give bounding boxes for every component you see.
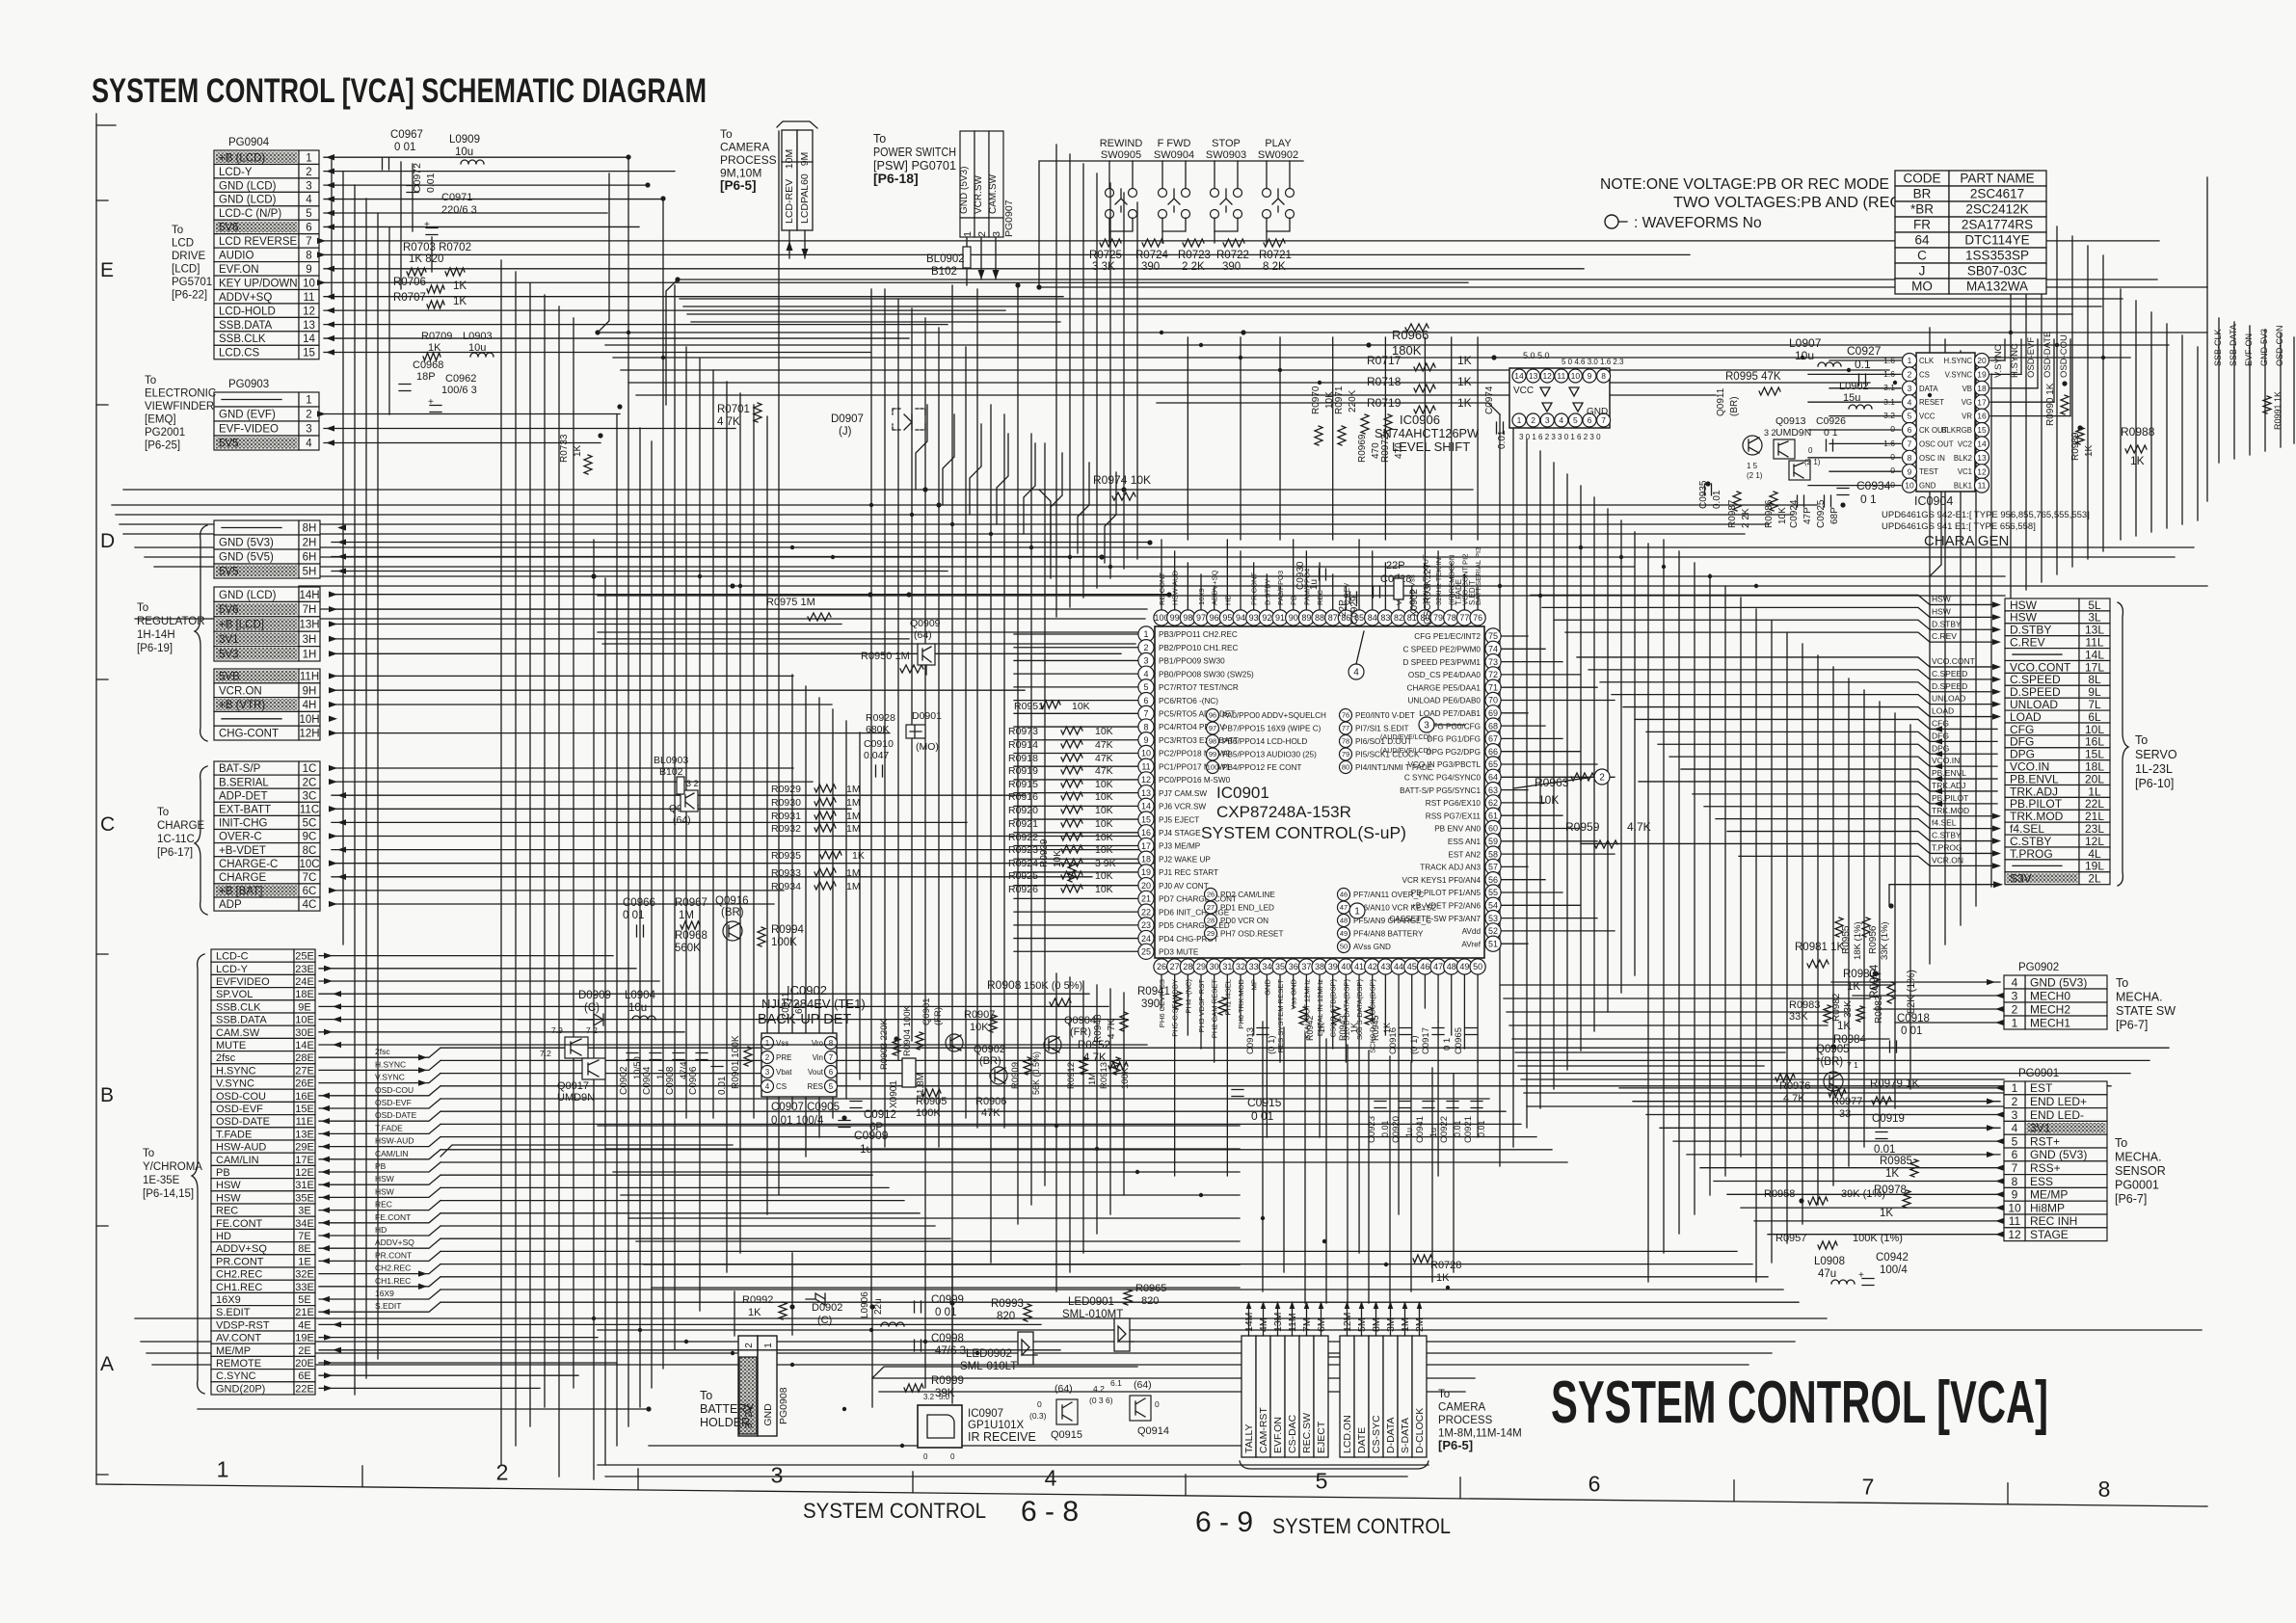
wire <box>1995 1111 2004 1117</box>
wire <box>1437 975 1439 1022</box>
pin 18 IC0901 <box>1138 851 1154 866</box>
wire <box>1014 673 1138 675</box>
svg-text:12: 12 <box>1542 371 1552 381</box>
svg-text:H.SYNC: H.SYNC <box>1944 357 1973 365</box>
wire <box>628 382 1870 384</box>
svg-text:21L: 21L <box>2085 810 2104 823</box>
svg-text:[P6-19]: [P6-19] <box>137 643 173 654</box>
svg-text:C0906: C0906 <box>688 1066 699 1095</box>
svg-text:3V1: 3V1 <box>219 634 238 646</box>
wire <box>2233 322 2235 459</box>
wire <box>1678 551 1680 1234</box>
svg-text:C.SYNC: C.SYNC <box>216 1370 256 1382</box>
svg-text:PJ1 REC START: PJ1 REC START <box>1159 868 1218 877</box>
pin 27 IC0901 <box>1167 959 1183 974</box>
svg-text:0: 0 <box>1808 446 1813 455</box>
svg-text:18P: 18P <box>416 371 436 383</box>
svg-text:R0971: R0971 <box>1334 386 1345 414</box>
node junction <box>949 1300 954 1305</box>
svg-text:R0980: R0980 <box>1843 969 1876 980</box>
wire <box>441 1161 1567 1163</box>
svg-text:HSW: HSW <box>375 1186 394 1196</box>
svg-text:1K: 1K <box>852 850 865 862</box>
wire <box>1014 818 1138 820</box>
svg-text:39K (1%): 39K (1%) <box>1841 1188 1885 1200</box>
node 2fsc <box>319 1048 441 1057</box>
wire <box>1266 574 1268 609</box>
svg-text:10K: 10K <box>1095 818 1113 830</box>
wire <box>337 539 346 545</box>
pin 46 IC0901 <box>1417 959 1432 974</box>
wire <box>859 732 861 1079</box>
svg-text:9M: 9M <box>799 152 811 167</box>
svg-text:92: 92 <box>1262 613 1271 623</box>
svg-text:SML-010MT: SML-010MT <box>1062 1309 1123 1320</box>
svg-text:1K: 1K <box>1847 981 1860 993</box>
wire <box>431 237 433 272</box>
svg-text:R0922: R0922 <box>1008 832 1038 843</box>
wire <box>317 411 326 416</box>
svg-text:TALLY: TALLY <box>1243 1423 1255 1453</box>
svg-text:5V5: 5V5 <box>219 567 238 578</box>
svg-text:3 3K: 3 3K <box>1092 261 1115 273</box>
wire <box>1109 989 1111 1214</box>
pin 97 IC0901 <box>1193 610 1209 625</box>
svg-text:23E: 23E <box>295 964 314 975</box>
wire <box>332 794 1025 796</box>
wire <box>319 993 1089 995</box>
svg-text:R0943: R0943 <box>1338 1015 1348 1041</box>
wire <box>324 324 948 326</box>
svg-text:R0912: R0912 <box>1066 1062 1077 1089</box>
svg-text:R0970: R0970 <box>1311 386 1322 414</box>
waveform ref 3 <box>1419 717 1434 732</box>
wire <box>1501 802 1545 804</box>
wire <box>1279 975 1281 1062</box>
svg-text:R0976: R0976 <box>1779 1080 1810 1092</box>
wire <box>1501 776 1615 778</box>
svg-text:MECH1: MECH1 <box>2030 1016 2070 1029</box>
svg-text:21E: 21E <box>295 1307 314 1318</box>
svg-text:LED0901: LED0901 <box>1068 1296 1114 1308</box>
bracket servo <box>2118 602 2128 886</box>
svg-text:T.PROG: T.PROG <box>1932 842 1962 852</box>
svg-text:5V6: 5V6 <box>219 223 238 234</box>
wire <box>329 730 337 735</box>
svg-text:3 9K: 3 9K <box>1095 858 1116 869</box>
svg-text:2: 2 <box>2012 1002 2018 1016</box>
svg-text:11: 11 <box>304 292 315 304</box>
svg-text:B102: B102 <box>931 266 957 278</box>
wire <box>1431 1068 1433 1282</box>
connector strip TALLY group <box>1241 1336 1256 1457</box>
wire <box>870 289 872 1307</box>
node junction <box>1366 342 1371 347</box>
pin 93 IC0901 <box>1246 610 1262 625</box>
svg-text:11: 11 <box>1141 761 1150 771</box>
wire <box>1384 337 1386 540</box>
wire <box>1768 1234 2000 1236</box>
svg-text:2C: 2C <box>303 777 317 788</box>
svg-text:GND (5V5): GND (5V5) <box>219 552 274 564</box>
svg-text:17L: 17L <box>2085 660 2104 674</box>
wire <box>1398 975 1400 1049</box>
svg-text:7 2: 7 2 <box>586 1025 598 1035</box>
wire <box>326 266 334 272</box>
wire <box>1987 1099 1995 1104</box>
svg-text:R0706: R0706 <box>393 277 426 288</box>
node junction <box>1015 282 1020 287</box>
svg-text:PB2/PPO10 CH1.REC: PB2/PPO10 CH1.REC <box>1159 644 1238 652</box>
svg-text:56: 56 <box>1488 875 1498 885</box>
node junction <box>936 502 941 507</box>
svg-text:99: 99 <box>1209 750 1216 758</box>
wire <box>1995 1020 2004 1025</box>
wire <box>1521 1078 2004 1080</box>
wire <box>598 173 609 333</box>
svg-text:R0903 220K: R0903 220K <box>879 1019 890 1070</box>
svg-text:PC6/RTO6 -(NC): PC6/RTO6 -(NC) <box>1159 697 1218 705</box>
pin 67 IC0901 <box>1485 731 1501 746</box>
svg-text:7.2: 7.2 <box>540 1049 551 1058</box>
svg-text:[EMQ]: [EMQ] <box>145 414 176 426</box>
svg-text:R0717: R0717 <box>1367 354 1402 367</box>
svg-text:33: 33 <box>1839 1108 1851 1120</box>
svg-text:(FR): (FR) <box>1070 1026 1091 1038</box>
wire <box>1987 979 1995 985</box>
svg-text:2: 2 <box>306 167 311 178</box>
wire <box>332 808 851 810</box>
wire <box>337 524 346 530</box>
svg-text:63: 63 <box>1488 785 1498 795</box>
wire <box>1527 1105 2004 1107</box>
svg-text:0.01: 0.01 <box>717 1076 728 1095</box>
svg-text:IC0901: IC0901 <box>1216 784 1269 802</box>
wire <box>329 861 337 866</box>
svg-text:SW0902: SW0902 <box>1258 149 1298 161</box>
svg-text:C0922: C0922 <box>1439 1116 1450 1143</box>
svg-text:Vss: Vss <box>776 1039 788 1048</box>
svg-text:BL0903: BL0903 <box>654 755 688 766</box>
svg-text:47/6 3: 47/6 3 <box>935 1345 966 1357</box>
svg-text:PG2001: PG2001 <box>145 427 185 439</box>
svg-text:ADP: ADP <box>219 899 242 911</box>
svg-text:SB07-03C: SB07-03C <box>1967 264 2028 279</box>
svg-text:0.01: 0.01 <box>1453 1120 1462 1137</box>
svg-text:CAM/LIN: CAM/LIN <box>216 1155 259 1166</box>
wire <box>412 164 414 231</box>
svg-text:1K: 1K <box>748 1307 761 1318</box>
pin 45 IC0901 <box>1404 959 1420 974</box>
svg-text:GND (5V3): GND (5V3) <box>2030 975 2087 989</box>
wire <box>2206 177 2208 501</box>
svg-text:C0971: C0971 <box>441 192 472 203</box>
wire <box>135 1317 1827 1319</box>
svg-text:3C: 3C <box>303 790 317 802</box>
wire <box>683 306 2101 307</box>
wire <box>1174 1022 1176 1176</box>
svg-text:1K: 1K <box>453 296 467 307</box>
svg-text:9: 9 <box>1143 735 1148 745</box>
wire <box>319 1005 1108 1007</box>
wire <box>515 272 517 1446</box>
svg-text:50: 50 <box>1473 962 1482 971</box>
svg-text:UPD6461GS 941 E1:[ TYPE 656,55: UPD6461GS 941 E1:[ TYPE 656,558] <box>1882 521 2036 532</box>
node V.SYNC <box>319 1074 441 1083</box>
svg-text:220/6 3: 220/6 3 <box>441 204 477 216</box>
wire <box>2293 337 2295 443</box>
svg-text:1: 1 <box>217 1456 229 1481</box>
wire <box>1055 145 1057 617</box>
wire <box>1512 1038 1889 1040</box>
node VCO.IN <box>1669 757 1997 766</box>
svg-text:EJECT: EJECT <box>1316 1421 1327 1453</box>
svg-text:97: 97 <box>1209 724 1216 732</box>
svg-text:C0972: C0972 <box>412 163 423 193</box>
svg-text:IC0902: IC0902 <box>787 983 827 998</box>
waveform ref 1 <box>1349 903 1365 918</box>
svg-text:1K: 1K <box>1349 1023 1359 1033</box>
pin 86 IC0901 <box>1338 610 1353 625</box>
svg-text:Hi8MP: Hi8MP <box>2030 1201 2065 1214</box>
svg-text:VCR.ON: VCR.ON <box>219 685 262 697</box>
wire <box>1995 1205 2004 1211</box>
svg-text:MA132WA: MA132WA <box>1966 279 2028 294</box>
wire <box>1863 690 1865 1147</box>
svg-text:2: 2 <box>1143 643 1148 652</box>
node junction <box>598 433 602 438</box>
svg-text:1E: 1E <box>298 1256 310 1267</box>
svg-text:To: To <box>143 1148 154 1159</box>
wire <box>329 651 337 656</box>
wire <box>329 765 337 771</box>
svg-text:VCO.CONT: VCO.CONT <box>2010 660 2071 674</box>
wire <box>1463 574 1465 609</box>
resistor R0991 1K vertical <box>2263 396 2271 413</box>
svg-text:R0725: R0725 <box>1089 250 1122 261</box>
wire <box>872 1367 1137 1378</box>
svg-text:SP.VOL: SP.VOL <box>216 989 253 1000</box>
svg-text:(64): (64) <box>914 629 932 641</box>
svg-text:0: 0 <box>1155 1399 1160 1409</box>
svg-text:C0921: C0921 <box>1463 1116 1474 1143</box>
wire <box>1853 995 2000 997</box>
svg-text:CFG: CFG <box>1932 718 1949 728</box>
svg-text:820: 820 <box>997 1311 1015 1322</box>
svg-text:GND: GND <box>1263 978 1271 995</box>
svg-text:15E: 15E <box>295 1104 314 1115</box>
svg-text:14: 14 <box>1514 371 1524 381</box>
svg-text:68: 68 <box>1488 721 1498 731</box>
pin 91 IC0901 <box>1272 610 1288 625</box>
svg-text:HD: HD <box>375 1225 387 1235</box>
svg-text:33K (1%): 33K (1%) <box>1880 921 1890 960</box>
svg-text:C0930: C0930 <box>1295 561 1306 590</box>
svg-text:23L: 23L <box>2085 822 2104 836</box>
svg-text:(AUD/EVF/LCD): (AUD/EVF/LCD) <box>1380 732 1430 741</box>
node junction <box>1830 1044 1835 1049</box>
svg-text:PROCESS: PROCESS <box>720 153 777 167</box>
wire <box>152 1364 1749 1366</box>
svg-text:PH3 VDSP-RST: PH3 VDSP-RST <box>1197 979 1206 1033</box>
svg-text:2 2K: 2 2K <box>1182 261 1205 273</box>
svg-text:10K: 10K <box>1053 850 1063 867</box>
svg-text:[P6-10]: [P6-10] <box>2135 777 2174 790</box>
svg-text:7H: 7H <box>303 604 317 616</box>
svg-text:1H: 1H <box>303 649 317 660</box>
svg-text:38: 38 <box>1315 962 1324 971</box>
svg-text:R0995 47K: R0995 47K <box>1725 371 1781 383</box>
svg-text:PG5701: PG5701 <box>172 277 212 288</box>
svg-text:IC0904: IC0904 <box>1914 494 1953 508</box>
wire <box>326 169 334 174</box>
wire <box>441 1110 1506 1112</box>
wire <box>1319 563 1321 609</box>
pin 11 IC0901 <box>1138 758 1154 774</box>
svg-text:DFG: DFG <box>1932 731 1949 740</box>
wire <box>324 296 1063 298</box>
svg-text:PD3 MUTE: PD3 MUTE <box>1159 947 1199 956</box>
wire <box>1647 544 1649 1282</box>
svg-text:REC.SW: REC.SW <box>1301 1413 1313 1453</box>
wire <box>1501 918 1597 919</box>
svg-text:GND (LCD): GND (LCD) <box>219 180 277 192</box>
svg-text:5: 5 <box>829 1082 834 1091</box>
resistor R0723 2.2K <box>1183 239 1204 247</box>
svg-text:NOTE:ONE VOLTAGE:PB OR REC MOD: NOTE:ONE VOLTAGE:PB OR REC MODE <box>1600 176 1889 193</box>
node OSD-EVF <box>319 1099 441 1108</box>
pin 70 IC0901 <box>1485 692 1501 707</box>
svg-text:1u: 1u <box>1309 579 1320 590</box>
wire <box>332 767 793 769</box>
svg-text:9: 9 <box>1588 371 1592 381</box>
wire staircase <box>1105 472 1116 563</box>
svg-text:DRIVE: DRIVE <box>172 251 205 262</box>
wire <box>1200 574 1202 609</box>
pin 48 IC0901 <box>1444 959 1459 974</box>
svg-text:SSB.DATA: SSB.DATA <box>216 1015 267 1026</box>
wire <box>1829 359 1901 361</box>
svg-text:DTC114YE: DTC114YE <box>1964 233 2029 248</box>
svg-text:11L: 11L <box>2085 635 2103 649</box>
wire <box>791 675 793 1108</box>
wire <box>1266 975 1268 1049</box>
wire <box>1014 911 1138 913</box>
svg-text:6: 6 <box>829 1068 834 1077</box>
svg-text:T.FADE: T.FADE <box>1455 579 1463 605</box>
svg-text:R0969: R0969 <box>1357 434 1368 463</box>
svg-text:7 1: 7 1 <box>1847 1060 1858 1070</box>
wire <box>441 1212 920 1214</box>
svg-text:0 01: 0 01 <box>1251 1109 1274 1123</box>
connector PG0908 battery <box>738 1336 758 1436</box>
bracket camera process strips <box>1240 1461 1428 1469</box>
node junction <box>730 583 734 588</box>
wire <box>593 540 595 1479</box>
svg-text:26: 26 <box>1157 962 1166 971</box>
wire <box>337 846 346 852</box>
svg-text:95: 95 <box>1222 613 1232 623</box>
svg-text:27: 27 <box>1170 962 1180 971</box>
wire <box>319 1374 578 1376</box>
svg-text:1H-14H: 1H-14H <box>137 629 175 641</box>
wire <box>1358 1008 1360 1253</box>
node junction <box>1099 554 1104 559</box>
svg-text:89: 89 <box>1301 613 1311 623</box>
svg-text:GND (EVF): GND (EVF) <box>219 410 276 421</box>
wire <box>1014 647 1138 649</box>
pin 32 IC0901 <box>1233 959 1248 974</box>
svg-text:10M: 10M <box>784 149 795 169</box>
svg-text:55: 55 <box>1488 888 1498 897</box>
wire <box>691 321 1060 323</box>
svg-text:82: 82 <box>1394 613 1403 623</box>
svg-text:R0979 1K: R0979 1K <box>1870 1078 1919 1090</box>
svg-text:83: 83 <box>1380 613 1390 623</box>
svg-text:PC7/RTO7 TEST/NCR: PC7/RTO7 TEST/NCR <box>1159 683 1239 692</box>
node HSW-AUD <box>319 1137 441 1147</box>
svg-text:HSW-AUD: HSW-AUD <box>216 1142 266 1154</box>
svg-text:RST+: RST+ <box>2030 1134 2060 1148</box>
svg-text:3 2: 3 2 <box>686 779 699 788</box>
svg-text:ADP-DET: ADP-DET <box>219 790 267 802</box>
svg-text:4: 4 <box>306 439 312 450</box>
resistor R0956 33K 1% <box>1862 918 1870 937</box>
svg-text:VC1: VC1 <box>1958 467 1972 476</box>
wire <box>319 1349 1060 1351</box>
svg-text:R0941: R0941 <box>1137 986 1170 998</box>
svg-text:11.8M: 11.8M <box>916 1073 926 1099</box>
wire <box>1714 1181 2000 1183</box>
wire <box>726 382 728 1272</box>
svg-text:57: 57 <box>1488 863 1498 872</box>
svg-text:76: 76 <box>1473 613 1482 623</box>
resistor R0999 39K <box>904 1384 923 1392</box>
wire <box>1437 1022 1439 1176</box>
svg-text:OSD-DATE: OSD-DATE <box>2042 332 2053 378</box>
pin 4 IC0901 <box>1138 666 1154 681</box>
svg-text:Vro: Vro <box>812 1039 824 1048</box>
pin 55 IC0901 <box>1485 885 1501 900</box>
pin 65 IC0901 <box>1485 757 1501 772</box>
svg-text:3: 3 <box>2012 1108 2018 1122</box>
svg-text:C.REV: C.REV <box>1932 631 1957 641</box>
svg-text:C SPEED PE2/PWM0: C SPEED PE2/PWM0 <box>1402 646 1481 654</box>
wire <box>441 1301 1799 1303</box>
svg-text:IR RECEIVE: IR RECEIVE <box>968 1430 1036 1444</box>
wire <box>1975 362 1977 906</box>
svg-text:EVF-VIDEO: EVF-VIDEO <box>219 424 279 436</box>
svg-text:1u: 1u <box>860 1142 872 1156</box>
svg-text:1 5: 1 5 <box>1747 462 1758 470</box>
svg-text:PG0902: PG0902 <box>2018 962 2059 973</box>
svg-text:16X9: 16X9 <box>216 1294 241 1306</box>
wire <box>332 732 890 734</box>
svg-text:D0901: D0901 <box>912 710 942 722</box>
svg-text:78: 78 <box>1342 737 1349 746</box>
svg-text:PART NAME: PART NAME <box>1960 172 2034 186</box>
svg-text:3: 3 <box>1424 721 1429 732</box>
svg-text:18K (1%): 18K (1%) <box>1853 921 1863 960</box>
svg-text:GND: GND <box>762 1403 774 1426</box>
wire <box>319 955 613 957</box>
svg-text:R0921: R0921 <box>1008 818 1038 830</box>
wire <box>324 352 870 354</box>
svg-text:4: 4 <box>306 195 312 206</box>
node T.PROG <box>1581 843 1997 853</box>
svg-text:100K: 100K <box>1120 1067 1131 1089</box>
svg-text:10: 10 <box>2008 1201 2021 1214</box>
